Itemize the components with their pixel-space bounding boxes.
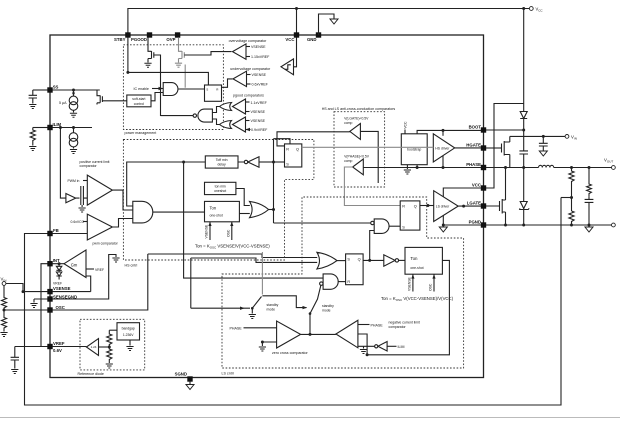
pin PHASE (481, 165, 486, 170)
ground PGOOD FET (144, 63, 151, 67)
dashed box LS cntrl (222, 197, 464, 368)
svg-text:R: R (402, 205, 405, 209)
gate AND pwm (133, 201, 153, 223)
node ILIM branch (59, 126, 62, 129)
block Toff min delay (205, 156, 238, 168)
wire ls driver lower to pgnd (442, 215, 444, 225)
svg-text:negative current limit: negative current limit (389, 320, 420, 324)
svg-text:VSENSE: VSENSE (53, 286, 71, 291)
svg-text:ILIM: ILIM (398, 345, 405, 349)
block bandgap (117, 323, 140, 340)
pin GND (316, 32, 321, 37)
gate NAND pgood (198, 109, 213, 122)
wire ILIM external (33, 127, 48, 129)
pin SENSEGND (47, 296, 52, 301)
pin SGND bottom (187, 376, 192, 381)
svg-text:VSENSE: VSENSE (251, 45, 266, 49)
pin VCC right (481, 185, 486, 190)
node VSENSE tap (22, 290, 25, 293)
wire VIN rail (510, 135, 565, 137)
wire ton min to or (236, 189, 250, 206)
svg-text:OSC: OSC (429, 283, 433, 291)
pin HGATE (481, 145, 486, 150)
gate OR pgood high (220, 103, 232, 111)
node zc switch (309, 333, 312, 336)
svg-text:S: S (347, 258, 350, 262)
wire gray enable column (184, 65, 186, 88)
svg-text:VSENSE: VSENSE (251, 110, 266, 114)
wire GND pin to ground (319, 14, 335, 35)
wire VCC to ls driver (443, 188, 481, 197)
svg-text:PGOOD: PGOOD (131, 37, 147, 42)
svg-text:HS and LS anti-cross-conductio: HS and LS anti-cross-conduction comparat… (322, 107, 396, 111)
svg-text:comp: comp (344, 121, 352, 125)
svg-text:Q: Q (414, 205, 417, 209)
capacitor VIN decoupling (539, 136, 548, 151)
wire bootstrap ground stub (406, 165, 408, 169)
comparator overvoltage (233, 44, 247, 59)
svg-text:OSC: OSC (227, 229, 231, 237)
ground VREF cap (11, 370, 18, 374)
svg-text:VSENSE: VSENSE (252, 73, 267, 77)
capacitor SS (29, 90, 37, 104)
svg-text:comparator: comparator (389, 325, 407, 329)
wire pcl out to and (112, 190, 132, 210)
svg-text:oneshot: oneshot (214, 189, 226, 193)
block Ton one-shot ls (405, 247, 442, 274)
capacitor offset bars (76, 186, 88, 205)
svg-text:ton min: ton min (215, 184, 226, 188)
terminal VIN sense (2, 282, 6, 286)
ground zc input2 (259, 347, 266, 351)
svg-text:SS: SS (53, 84, 59, 89)
wire standby column (190, 258, 192, 308)
wire ref to bandgap (109, 329, 117, 331)
wire ilim sense column (60, 128, 66, 199)
capacitor VREF (11, 357, 19, 368)
ground sensegnd internal (112, 258, 119, 262)
wire hs driver to HGATE (455, 147, 482, 149)
current source 5uA (69, 90, 78, 113)
gate AND ls reset (323, 274, 338, 289)
wire or2 input1 (148, 254, 317, 258)
svg-text:mode: mode (267, 308, 276, 312)
node ILIM current source (72, 126, 75, 129)
svg-text:1.24: 1.24 (91, 345, 97, 349)
wire hs driver lower supply (442, 156, 444, 168)
wire inverter input (259, 161, 274, 163)
svg-text:Q: Q (296, 147, 299, 151)
diode bootstrap D1 (520, 112, 527, 131)
pin OVP (175, 32, 180, 37)
wire toff delay out (127, 162, 245, 206)
ground SGND (186, 385, 194, 390)
node toff branch (182, 161, 185, 164)
wire zc input2 (262, 342, 276, 346)
wire pgood or outputs (212, 107, 219, 125)
svg-text:VCC: VCC (472, 183, 481, 188)
capacitor COUT (585, 197, 594, 225)
node PGND ls-fet (504, 224, 507, 227)
wire ref amp input (99, 346, 110, 348)
wire IC enable arrow (152, 88, 163, 90)
node phase hs driver (442, 166, 445, 169)
transistor PGOOD pulldown (148, 37, 154, 62)
wire pcl input top (83, 180, 87, 182)
wire VREF external (15, 347, 48, 358)
wire standby1 contact (261, 252, 263, 295)
wire bootstrap phase stub (416, 165, 418, 168)
comparator pgood high (233, 99, 246, 114)
svg-text:VSENSE: VSENSE (205, 224, 209, 238)
wire pwm input ref (83, 221, 87, 223)
pin VCC (294, 32, 299, 37)
node divider top (570, 166, 573, 169)
wire VSENSE external (23, 291, 48, 293)
resistor ref top (107, 330, 112, 347)
flip-flop enable latch (205, 85, 222, 101)
transistor LS MOSFET Q2 (486, 168, 506, 226)
svg-text:Toff min: Toff min (216, 158, 228, 162)
wire or2 out (337, 260, 346, 262)
pin STBY (125, 32, 130, 37)
amplifier reference buffer (86, 339, 98, 356)
block soft-start (127, 95, 151, 107)
wire pwm out to and (112, 219, 132, 228)
wire zc out to switch2 (301, 333, 336, 335)
svg-text:standby: standby (322, 304, 334, 308)
node top rail / bootstrap branch (522, 7, 525, 10)
wire SENSEGND external (34, 299, 48, 303)
svg-text:standby: standby (267, 303, 279, 307)
ground current source (70, 113, 77, 117)
resistor ROSC top (1, 285, 6, 310)
node CBOOT / PHASE (522, 166, 525, 169)
wire ilim in (387, 345, 396, 347)
ground bootstrap (404, 170, 411, 174)
wire PHASE external (486, 167, 539, 169)
amplifier ilim gain (66, 194, 76, 203)
terminal VIN (565, 135, 569, 139)
gate NAND ls (374, 219, 389, 234)
dashed box reference (80, 319, 145, 370)
svg-text:comparator: comparator (80, 164, 98, 168)
node top rail / VCC riser (295, 7, 298, 10)
svg-text:Ton: Ton (210, 206, 217, 211)
gate OR ls set (317, 252, 337, 269)
svg-text:R: R (286, 147, 289, 151)
wire UVLO to VCC pin (294, 37, 297, 66)
svg-text:1.236V: 1.236V (123, 333, 134, 337)
svg-text:bootstrap: bootstrap (407, 148, 421, 152)
wire and out to ton (153, 211, 205, 213)
svg-text:PHASE: PHASE (230, 327, 243, 331)
comparator positive current limit (87, 175, 112, 205)
svg-text:HGATE: HGATE (466, 143, 481, 148)
wire OVP gate to ov comparator (184, 52, 231, 55)
svg-text:1.15xVREF: 1.15xVREF (251, 55, 270, 59)
wire standby2 control (262, 296, 306, 308)
pin ILIM (47, 125, 52, 130)
ground offset (81, 205, 83, 207)
ground RILIM (29, 147, 36, 151)
svg-text:R: R (347, 280, 350, 284)
svg-text:S: S (286, 162, 289, 166)
pin COMP/INT (47, 261, 52, 266)
wire phase comp output to ls latch R (344, 167, 400, 206)
switch standby 2 (309, 314, 311, 334)
node boot hs driver supply (442, 129, 445, 132)
terminal GND out (612, 223, 616, 227)
resistor divider R2 bottom (569, 211, 574, 225)
gate OR pgood low (220, 121, 232, 129)
pin BOOT (481, 127, 486, 132)
svg-text:one-shot: one-shot (210, 214, 223, 218)
wire ls q out (363, 259, 384, 261)
node PGND zener (522, 224, 525, 227)
comparator VCC UVLO schmitt (281, 59, 294, 75)
flip-flop HS latch (285, 144, 302, 167)
terminal Vcc supply (529, 7, 533, 11)
pin VSENSE (47, 289, 52, 294)
svg-text:VREF: VREF (95, 268, 104, 272)
block ton min one-shot (205, 182, 236, 194)
ground ref resistor (106, 364, 113, 368)
wire ton oneshot inputs (210, 222, 232, 240)
resistor ROSC bottom (1, 310, 6, 332)
wire hs driver supply (442, 130, 444, 135)
ground SS cap (29, 105, 36, 109)
wire ton2 inputs (413, 275, 434, 292)
wire VREF internal (52, 346, 86, 348)
page rule line (0, 417, 620, 419)
comparator undervoltage (233, 71, 247, 86)
amplifier LS driver (434, 191, 459, 222)
wire SS internal (52, 89, 99, 91)
wire PGOOD gate from pgood logic (154, 55, 161, 116)
svg-text:Q: Q (358, 258, 361, 262)
wire FB internal to pwm (52, 233, 87, 235)
dashed box power management (123, 45, 223, 130)
node q dash crossing (426, 204, 429, 207)
wire BOOT internal (417, 130, 481, 133)
node phase bootstrap (416, 166, 419, 169)
wire neg comp input phase (358, 324, 370, 326)
svg-text:LS cntrl: LS cntrl (222, 371, 234, 375)
svg-text:Ton: Ton (410, 256, 418, 261)
dashed box anti-cross (334, 112, 385, 187)
wire ILIM internal (52, 127, 92, 129)
ground VIN cap (539, 151, 547, 156)
svg-text:5 µA: 5 µA (59, 101, 67, 105)
svg-text:0.6V: 0.6V (53, 348, 62, 353)
node cout top (588, 166, 591, 169)
wire neg comp input mid (358, 334, 367, 355)
inverter ton2 (384, 255, 395, 266)
wire phase to zc (244, 327, 277, 329)
node ls q branch (368, 259, 371, 262)
node divider mid / feedback (570, 196, 573, 199)
block bootstrap (401, 134, 427, 165)
gate OR hs (250, 201, 269, 217)
wire SENSEGND internal (52, 255, 116, 300)
svg-text:BOOT: BOOT (469, 125, 482, 130)
transistor OVP pulldown (175, 37, 184, 67)
comparator zero cross (277, 321, 301, 348)
terminal VOUT (612, 166, 616, 170)
svg-text:pwm comparator: pwm comparator (93, 241, 119, 245)
wire and3 out (338, 281, 345, 283)
svg-text:STBY: STBY (114, 37, 126, 42)
flip-flop LS latch (400, 201, 420, 230)
IC boundary box (50, 35, 484, 378)
wire enable input 2 (151, 93, 163, 101)
dashed box HS cntrl (123, 140, 314, 261)
wire bus to ls nand (274, 222, 371, 224)
svg-text:OSC: OSC (56, 305, 65, 310)
wire pgood nand out (161, 115, 194, 117)
pin OSC (47, 307, 52, 312)
wire lgate sense (360, 131, 378, 183)
inductor L1 (539, 165, 554, 167)
wire feedback loop to FB pin (25, 198, 562, 406)
wire BOOT pin to bootstrap column (486, 129, 524, 131)
svg-text:overvoltage comparator: overvoltage comparator (229, 39, 268, 43)
wire bus to hs latch top (274, 139, 291, 144)
wire PHASE internal (363, 167, 481, 169)
svg-text:PWM in: PWM in (68, 179, 80, 183)
comparator pwm (87, 214, 112, 240)
wire inverter to ton2 (399, 259, 405, 261)
wire bus to latch S (274, 161, 285, 163)
current source ILIM bias (69, 128, 78, 149)
node pgnd ls driver (442, 224, 445, 227)
wire or out to bus (269, 209, 274, 211)
wire gm input vsense (86, 276, 91, 292)
amplifier Gm error (64, 250, 86, 278)
ground GND pin (330, 19, 338, 24)
resistor divider R1 top (569, 168, 574, 212)
svg-text:control: control (134, 102, 144, 106)
wire VOUT rail (554, 167, 612, 169)
pin LGATE (481, 203, 486, 208)
wire VCC top rail (128, 9, 530, 36)
wire VCC branch to right VCC pin (486, 104, 524, 189)
node VIN decoupling (542, 135, 545, 138)
resistor cout esr (587, 168, 592, 197)
pin SS (47, 87, 52, 92)
svg-text:GND: GND (307, 37, 317, 42)
block Ton one-shot (205, 201, 240, 221)
wire nand in2 from ls latch q (370, 231, 375, 261)
wire VSENSE internal (52, 291, 90, 293)
svg-text:bandgap: bandgap (122, 326, 135, 330)
resistor RILIM (30, 128, 35, 146)
wire bandgap ground stub (129, 340, 131, 346)
comparator negative current limit (336, 320, 358, 348)
svg-text:HS cntrl: HS cntrl (125, 264, 138, 268)
svg-text:VCC: VCC (404, 121, 408, 129)
svg-text:Gm: Gm (71, 262, 78, 267)
ground neg comp (363, 346, 365, 348)
svg-text:mode: mode (322, 309, 331, 313)
capacitor bootstrap CBOOT (519, 130, 528, 168)
node PGND cout (588, 224, 591, 227)
wire ls latch Q to driver (420, 205, 434, 207)
node BOOT junction (522, 129, 525, 132)
svg-text:0.9xVREF: 0.9xVREF (251, 128, 268, 132)
svg-text:INT: INT (53, 258, 60, 263)
wire ton2 output loop (367, 260, 449, 354)
wire neg comp input ilim (358, 345, 375, 347)
svg-text:pgood comparators: pgood comparators (233, 93, 264, 97)
svg-text:PGND: PGND (469, 220, 481, 225)
wire ton to or (239, 213, 249, 215)
svg-text:LGATE: LGATE (467, 201, 481, 206)
transistor soft-start discharge FET (97, 90, 102, 105)
svg-text:undervoltage comparator: undervoltage comparator (230, 67, 271, 71)
svg-text:VREF: VREF (53, 282, 62, 286)
diode zener DZ low-side (519, 168, 529, 226)
svg-text:0.6xVREF: 0.6xVREF (252, 83, 269, 87)
svg-text:PHASE: PHASE (466, 162, 481, 167)
svg-text:SGND: SGND (175, 371, 187, 376)
flip-flop LS control latch (346, 254, 364, 285)
svg-text:Reference diode: Reference diode (78, 372, 104, 376)
transistor HS MOSFET Q1 (502, 136, 510, 167)
svg-text:PHASE: PHASE (371, 323, 384, 327)
pin PGOOD (147, 32, 152, 37)
node bus inverter (272, 161, 275, 164)
node OSC divider (3, 309, 6, 312)
wire nand out to ls latch S (389, 225, 400, 227)
node neg comp loop (366, 353, 369, 356)
node bus or (272, 208, 275, 211)
svg-text:power management: power management (125, 131, 157, 135)
wire COMP external to vref (41, 264, 48, 347)
wire FET to soft-start block (102, 100, 126, 102)
wire OSC internal to ls cntrl (52, 254, 147, 310)
ground standby1 (251, 308, 253, 313)
wire ls driver to LGATE (458, 205, 481, 207)
wire HGATE pin to HS FET gate (486, 147, 502, 149)
node SS current source (72, 89, 75, 92)
pin PGND (481, 222, 486, 227)
node PGND divider (570, 224, 573, 227)
wire anticross comp1 to latch R (277, 132, 350, 146)
wire VCC pin riser (296, 9, 298, 36)
svg-text:IC enable: IC enable (134, 87, 149, 91)
wire and3 input from toff branch (184, 162, 324, 278)
svg-text:positive current limit: positive current limit (80, 160, 110, 164)
svg-text:VSENSE: VSENSE (408, 277, 412, 291)
wire OSC external (4, 309, 48, 311)
amplifier HS driver (433, 134, 454, 162)
svg-text:VCC: VCC (285, 37, 294, 42)
wire SS external (33, 89, 48, 91)
ground output return (585, 227, 593, 232)
inverter toff (248, 157, 259, 168)
wire VIN to VSENSE (6, 284, 23, 292)
resistor ref bottom (107, 347, 112, 363)
comparator pgood low (233, 117, 246, 132)
switch standby 1 (191, 307, 250, 309)
svg-text:soft-start: soft-start (132, 97, 145, 101)
wire PGND external (486, 224, 612, 226)
svg-text:S: S (206, 87, 208, 91)
svg-text:one-shot: one-shot (410, 266, 423, 270)
node STBY corner (126, 71, 129, 74)
